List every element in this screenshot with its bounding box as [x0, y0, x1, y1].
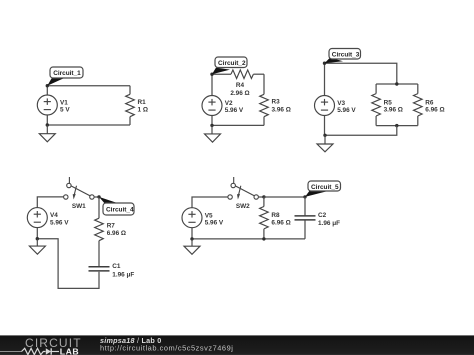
wire C2 top lead — [304, 197, 306, 215]
resistor R3 — [260, 94, 269, 116]
callout Circuit_2 — [212, 57, 247, 74]
callout Circuit_1 — [47, 67, 83, 86]
svg-text:Circuit_5: Circuit_5 — [311, 184, 339, 191]
node C2 top — [303, 195, 306, 198]
wire V5 bottom lead — [191, 228, 193, 239]
svg-text:5.96 V: 5.96 V — [337, 107, 356, 114]
wire R8 node to C2 node — [264, 196, 305, 198]
wire top circuit3 — [325, 63, 397, 84]
resistor R7 — [95, 218, 104, 241]
node bottom of V1 — [46, 123, 49, 126]
ground circuit2 — [205, 125, 221, 142]
voltage source V5 — [182, 208, 202, 228]
node switch right circuit4 — [97, 195, 100, 198]
wire R3 top lead — [263, 74, 265, 94]
wire switch to node circuit4 — [94, 196, 99, 198]
node top of V3 — [323, 62, 326, 65]
svg-text:Circuit_3: Circuit_3 — [332, 52, 360, 59]
svg-text:1 Ω: 1 Ω — [138, 107, 148, 114]
wire bottom circuit1 — [47, 124, 130, 126]
wire R6 bottom lead — [417, 116, 419, 126]
switch SW1 — [64, 177, 95, 200]
node bottom of V4 — [36, 237, 39, 240]
wire R5 top lead — [375, 84, 377, 94]
svg-text:3.96 Ω: 3.96 Ω — [272, 107, 291, 114]
wire R7 top lead — [98, 197, 100, 218]
node bottom of V5 — [190, 237, 193, 240]
resistor R5 — [372, 94, 381, 116]
wire V3 top lead — [324, 63, 326, 95]
wire V1 top lead — [46, 86, 48, 95]
node bottom of V2 — [210, 124, 213, 127]
wire R8 bottom lead — [263, 229, 265, 239]
wire R1 top lead — [129, 86, 131, 95]
wire R6 top lead — [417, 84, 419, 94]
wire C2 bottom lead — [304, 220, 306, 239]
wire R1 bottom lead — [129, 117, 131, 125]
svg-text:SW2: SW2 — [236, 203, 250, 210]
svg-text:V3: V3 — [337, 100, 345, 107]
svg-text:5.96 V: 5.96 V — [50, 220, 69, 227]
svg-text:6.96 Ω: 6.96 Ω — [425, 106, 444, 113]
svg-text:6.96 Ω: 6.96 Ω — [271, 219, 290, 226]
callout Circuit_3 — [325, 49, 361, 64]
node R8 bottom — [262, 237, 265, 240]
svg-text:V5: V5 — [205, 212, 213, 219]
svg-text:V4: V4 — [50, 212, 58, 219]
node parallel bottom — [395, 124, 398, 127]
svg-text:Circuit_4: Circuit_4 — [106, 207, 134, 214]
svg-text:V1: V1 — [60, 99, 68, 106]
wire V4 bottom lead — [36, 228, 38, 239]
wire V2 top lead — [211, 74, 213, 95]
wire top-left circuit2 — [212, 73, 231, 75]
wire R3 bottom lead — [263, 117, 265, 126]
ground circuit5 — [184, 239, 200, 254]
svg-text:R7: R7 — [107, 222, 116, 229]
svg-text:5.96 V: 5.96 V — [205, 220, 224, 227]
ground circuit1 — [39, 125, 55, 142]
svg-text:http://circuitlab.com/c5c5zsvz: http://circuitlab.com/c5c5zsvz7469j — [100, 343, 233, 352]
resistor R4 — [231, 70, 253, 79]
wire top circuit1 — [47, 85, 130, 87]
resistor R1 — [126, 94, 135, 116]
svg-text:LAB: LAB — [60, 347, 79, 355]
node parallel top — [395, 82, 398, 85]
wire R5 bottom lead — [375, 116, 377, 126]
wire top circuit4 — [37, 197, 63, 208]
wire V2 bottom lead — [211, 116, 213, 126]
svg-text:R4: R4 — [236, 82, 245, 89]
wire parallel top bus — [376, 83, 418, 85]
wire top circuit5 — [192, 197, 228, 208]
wire bottom circuit3 — [325, 126, 397, 136]
svg-text:R8: R8 — [271, 212, 280, 219]
svg-text:R1: R1 — [138, 99, 147, 106]
svg-text:6.96 Ω: 6.96 Ω — [107, 230, 126, 237]
svg-text:5.96 V: 5.96 V — [225, 107, 244, 114]
voltage source V3 — [315, 96, 335, 116]
capacitor C2 — [295, 216, 316, 220]
svg-text:1.96 μF: 1.96 μF — [318, 220, 340, 227]
voltage source V1 — [37, 95, 57, 115]
resistor R6 — [414, 94, 423, 116]
node top of V1 — [46, 84, 49, 87]
node R8 top — [262, 195, 265, 198]
callout Circuit_5 — [305, 181, 341, 197]
svg-text:1.96 μF: 1.96 μF — [112, 272, 134, 279]
voltage source V4 — [27, 208, 47, 228]
wire C1 bottom loop — [37, 239, 99, 289]
wire bottom circuit5 — [192, 238, 305, 240]
svg-text:C1: C1 — [112, 263, 121, 270]
svg-text:5 V: 5 V — [60, 107, 70, 114]
voltage source V2 — [202, 96, 222, 116]
node bottom of V3 — [323, 134, 326, 137]
svg-text:R3: R3 — [272, 99, 281, 106]
svg-text:3.96 Ω: 3.96 Ω — [384, 106, 403, 113]
wire top-right circuit2 — [253, 73, 264, 75]
wire R8 top lead — [263, 197, 265, 207]
ground circuit4 — [29, 239, 45, 255]
svg-text:Circuit_1: Circuit_1 — [53, 70, 81, 77]
ground circuit3 — [317, 135, 333, 152]
svg-text:Circuit_2: Circuit_2 — [218, 60, 246, 67]
svg-text:2.96 Ω: 2.96 Ω — [230, 90, 249, 97]
svg-text:R6: R6 — [425, 99, 434, 106]
svg-text:R5: R5 — [384, 99, 393, 106]
wire bottom circuit2 — [212, 124, 264, 126]
resistor R8 — [260, 207, 269, 229]
capacitor C1 — [89, 267, 110, 271]
wire switch to R8 node — [258, 196, 264, 198]
svg-text:SW1: SW1 — [72, 203, 86, 210]
svg-text:C2: C2 — [318, 212, 327, 219]
svg-text:V2: V2 — [225, 100, 233, 107]
wire V3 bottom lead — [324, 116, 326, 136]
node top of V2 — [210, 73, 213, 76]
wire parallel bottom bus — [376, 125, 418, 127]
switch SW2 — [228, 177, 259, 200]
wire R7 to C1 — [98, 241, 100, 267]
wire V1 bottom lead — [46, 115, 48, 125]
callout Circuit_4 — [99, 197, 134, 215]
